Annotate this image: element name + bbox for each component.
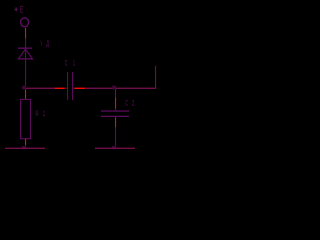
svg-text:V: V <box>41 39 43 48</box>
svg-text:Д: Д <box>46 39 49 48</box>
svg-text:E: E <box>20 5 24 16</box>
svg-text:C: C <box>125 99 128 108</box>
svg-text:1: 1 <box>73 59 75 68</box>
svg-text:1: 1 <box>43 109 45 118</box>
svg-text:R: R <box>36 109 39 118</box>
svg-text:C: C <box>65 59 68 68</box>
svg-text:2: 2 <box>132 99 134 108</box>
